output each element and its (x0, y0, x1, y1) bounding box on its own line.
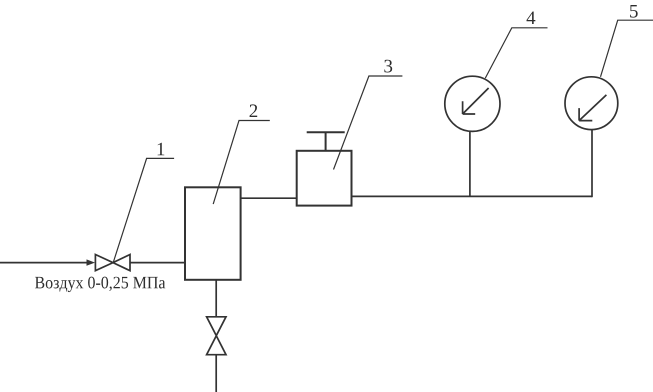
gauge 5 arrow (579, 95, 606, 121)
leader line 1 (113, 158, 174, 262)
leader line 5 (601, 20, 653, 77)
valve V1 (bowtie) (95, 255, 130, 271)
regulator box 2 (185, 187, 241, 279)
wire riser to gauge 5 (591, 130, 593, 198)
wire box 2 to box 3 (241, 197, 297, 199)
wire bus box 3 to corner (352, 195, 593, 197)
gauge 4 arrow (463, 88, 489, 114)
wire valve V2 down to edge (215, 355, 217, 392)
label 1 (158, 143, 165, 156)
valve box 3 (297, 151, 352, 206)
text Воздух 0-0,25 МПа (35, 277, 165, 292)
wire box 2 down pipe (215, 280, 217, 317)
wire valve V1 to box 2 (130, 262, 185, 264)
label 3 (384, 60, 392, 73)
leader line 2 (213, 121, 270, 205)
leader line 4 (485, 28, 547, 78)
label 4 (527, 11, 536, 24)
gauge 4 circle (445, 76, 500, 131)
gauge 5 circle (565, 77, 618, 130)
wire inlet line (0, 262, 88, 264)
leader line 3 (334, 76, 403, 170)
valve 3 handle stem (325, 132, 327, 151)
valve V2 (vertical bowtie) (207, 317, 226, 355)
label 2 (250, 104, 258, 117)
valve 3 handle bar (307, 131, 345, 133)
flow arrowhead (87, 259, 96, 265)
label 5 (630, 5, 638, 18)
wire riser to gauge 4 (469, 131, 471, 196)
